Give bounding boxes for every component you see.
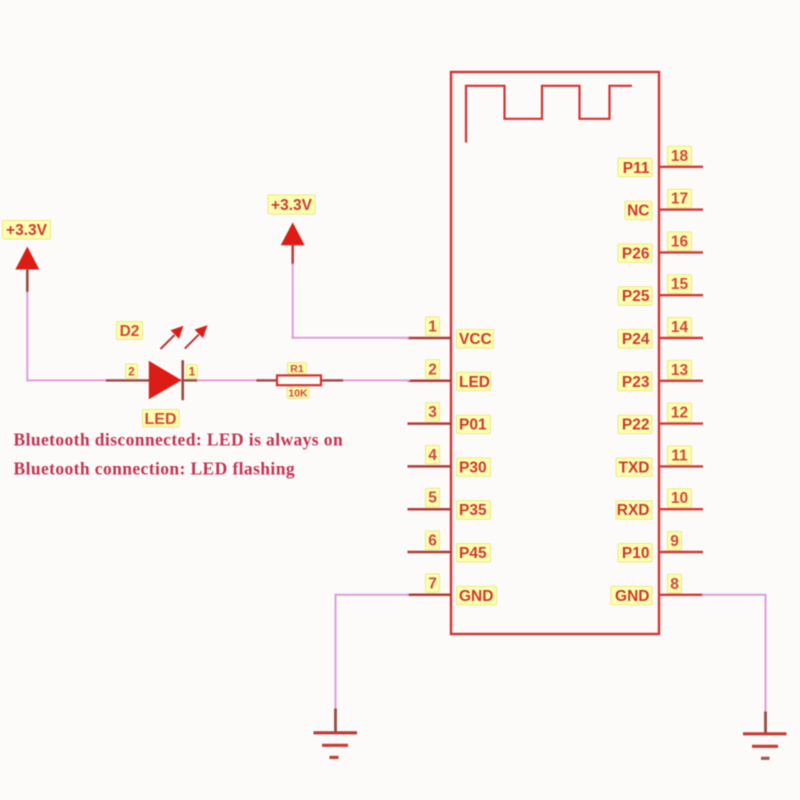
label D2 — [117, 322, 143, 341]
svg-text:4: 4 — [428, 447, 437, 464]
pin 11 number — [668, 446, 692, 465]
svg-text:P10: P10 — [622, 545, 650, 562]
svg-text:5: 5 — [428, 490, 437, 507]
wire: right GND vertical — [765, 594, 767, 713]
label LED — [143, 410, 180, 429]
pin 12 wire — [658, 422, 703, 424]
svg-text:10: 10 — [671, 490, 688, 507]
LED D2 emission arrow 2 — [185, 325, 208, 349]
pin 14 name P24 — [618, 330, 652, 349]
resistor R1 left pin stub — [257, 379, 279, 381]
svg-text:D2: D2 — [120, 323, 140, 340]
pin 3 wire — [408, 422, 453, 425]
svg-text:LED: LED — [145, 411, 177, 428]
wire: right +3.3V vertical — [292, 264, 294, 339]
pin 15 name P25 — [618, 287, 652, 306]
wire: left GND vertical — [335, 594, 337, 710]
pin 17 wire — [658, 208, 703, 210]
svg-text:13: 13 — [671, 362, 689, 379]
pin 16 wire — [658, 251, 703, 253]
svg-text:10K: 10K — [288, 388, 308, 400]
svg-text:TXD: TXD — [619, 459, 650, 476]
svg-text:LED: LED — [459, 374, 490, 391]
svg-text:15: 15 — [671, 276, 689, 293]
wire: pin8 GND horizontal — [702, 594, 766, 596]
svg-text:9: 9 — [670, 533, 679, 550]
svg-text:2: 2 — [128, 367, 134, 379]
pin 11 name TXD — [616, 458, 652, 477]
pin 14 number — [668, 318, 692, 337]
pin 8 wire — [658, 594, 703, 596]
svg-text:RXD: RXD — [617, 502, 650, 519]
pin 18 number — [668, 146, 692, 165]
svg-text:2: 2 — [428, 361, 437, 378]
pin 6 name P45 — [457, 544, 491, 563]
pin 10 number — [668, 489, 692, 508]
svg-text:+3.3V: +3.3V — [271, 197, 313, 214]
pin 9 name P10 — [618, 544, 652, 563]
pin 1 number — [426, 317, 440, 336]
pin 7 name GND — [457, 586, 497, 605]
svg-text:+3.3V: +3.3V — [6, 222, 48, 239]
pin 6 wire — [408, 551, 453, 554]
pin 16 name P26 — [618, 244, 652, 263]
svg-text:VCC: VCC — [459, 331, 492, 348]
pin 13 wire — [658, 380, 703, 382]
IC U1 body — [451, 72, 659, 634]
pin 12 number — [668, 403, 692, 422]
svg-text:1: 1 — [428, 319, 437, 336]
svg-text:14: 14 — [671, 319, 689, 336]
ground (left) — [314, 709, 358, 758]
LED D2 anode pin stub — [106, 379, 150, 381]
svg-text:P26: P26 — [622, 245, 650, 262]
LED D2 cathode bar — [181, 360, 184, 400]
LED pin label 2 — [126, 364, 138, 379]
pin 4 name P30 — [457, 458, 491, 477]
pin 12 name P22 — [618, 415, 652, 434]
svg-text:Bluetooth connection: LED flas: Bluetooth connection: LED flashing — [14, 459, 295, 479]
resistor R1 body — [277, 375, 321, 385]
pin 9 wire — [658, 551, 703, 553]
ground (right) — [743, 712, 787, 759]
svg-text:17: 17 — [671, 191, 688, 208]
wire: VCC net horizontal — [292, 337, 409, 339]
pin 18 name P11 — [618, 158, 652, 177]
svg-text:P25: P25 — [622, 288, 650, 305]
pin 8 number — [668, 574, 682, 593]
pin 16 number — [668, 232, 692, 251]
pin 9 number — [668, 532, 682, 551]
resistor R1 right pin stub — [320, 379, 343, 381]
pin 10 wire — [658, 508, 703, 510]
pin 15 wire — [658, 294, 703, 296]
pin 1 wire — [408, 337, 453, 340]
power +3.3V label (left) — [3, 221, 51, 240]
pin 6 number — [426, 531, 440, 550]
pin 4 number — [426, 445, 440, 464]
wire: LED net horizontal — [26, 379, 410, 381]
LED D2 triangle — [149, 361, 182, 400]
svg-text:11: 11 — [671, 447, 688, 464]
svg-text:16: 16 — [671, 233, 689, 250]
pin 13 number — [668, 360, 692, 379]
pin 15 number — [668, 275, 692, 294]
svg-text:GND: GND — [459, 588, 493, 605]
svg-text:P22: P22 — [622, 417, 650, 434]
svg-text:P35: P35 — [459, 502, 487, 519]
LED D2 cathode pin stub — [182, 379, 197, 381]
svg-text:NC: NC — [627, 203, 649, 220]
pin 2 number — [426, 360, 440, 379]
svg-text:R1: R1 — [290, 363, 304, 375]
pin 13 name P23 — [618, 372, 652, 391]
pin 18 wire — [658, 166, 703, 168]
svg-text:P45: P45 — [459, 545, 487, 562]
pin 7 wire — [408, 594, 453, 597]
svg-text:12: 12 — [671, 405, 688, 422]
label 10K — [287, 387, 309, 399]
pin 1 name VCC — [457, 330, 494, 349]
pin 3 number — [426, 403, 440, 422]
pin 2 wire — [408, 380, 453, 383]
power +3.3V label (right) — [268, 195, 315, 214]
pin 11 wire — [658, 465, 703, 467]
svg-text:6: 6 — [428, 533, 437, 550]
label R1 — [288, 363, 307, 375]
pin 5 name P35 — [457, 501, 491, 520]
svg-text:P01: P01 — [459, 417, 487, 434]
wire: left +3.3V vertical — [26, 292, 28, 382]
svg-text:3: 3 — [428, 404, 437, 421]
svg-text:P24: P24 — [622, 331, 650, 348]
pin 10 name RXD — [616, 501, 652, 520]
svg-text:1: 1 — [189, 367, 196, 379]
power +3.3V arrow (left) — [15, 247, 39, 293]
svg-text:18: 18 — [671, 148, 689, 165]
pin 2 name LED — [457, 372, 491, 391]
pin 17 name NC — [625, 201, 652, 220]
pin 5 number — [426, 488, 440, 507]
pin 5 wire — [408, 508, 453, 511]
svg-text:8: 8 — [670, 576, 679, 593]
LED pin label 1 — [187, 365, 198, 379]
antenna — [466, 86, 632, 143]
wire: pin7 GND horizontal — [335, 594, 410, 596]
pin 3 name P01 — [457, 415, 491, 434]
pin 17 number — [668, 189, 692, 208]
svg-text:Bluetooth disconnected: LED is: Bluetooth disconnected: LED is always on — [14, 430, 344, 450]
LED D2 emission arrow 1 — [161, 326, 184, 349]
svg-text:P30: P30 — [459, 459, 487, 476]
svg-text:P11: P11 — [623, 160, 650, 177]
pin 14 wire — [658, 337, 703, 339]
svg-text:P23: P23 — [622, 374, 650, 391]
pin 7 number — [426, 574, 440, 593]
svg-text:GND: GND — [615, 588, 649, 605]
power +3.3V arrow (right) — [281, 222, 305, 264]
pin 8 name GND — [611, 586, 652, 605]
svg-text:7: 7 — [428, 575, 437, 592]
pin 4 wire — [408, 465, 453, 468]
